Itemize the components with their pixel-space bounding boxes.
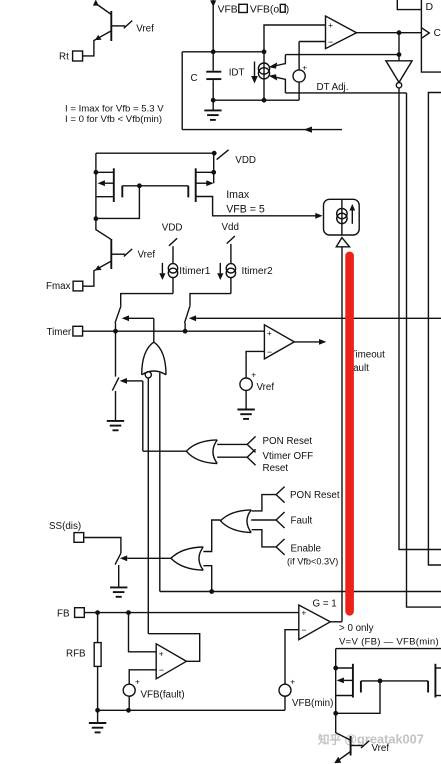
wire U1 - input [299,41,325,43]
svg-text:+: + [135,677,140,687]
wire gate rail bottom [380,680,428,682]
wire U7 - input [246,351,264,378]
wire U1 output to flipflop [357,32,422,34]
amp U6 G=1 [299,605,331,640]
wire U1 + input [264,25,326,52]
arrow A2 switch2 control [189,315,196,321]
switch SW4 [115,553,121,564]
wire bottom rail to DT source [213,99,299,101]
svg-text:+: + [328,20,333,30]
wire output junction down [398,33,400,55]
svg-text:Vref: Vref [138,249,156,260]
svg-text:Imax: Imax [226,189,250,201]
node bottom mirror gate junction [378,679,383,684]
wire mirror upper arrow [277,55,286,66]
svg-text:Fault: Fault [291,515,313,526]
svg-text:FB: FB [57,608,70,619]
svg-text:IDT: IDT [229,67,245,78]
wire M2 drain to VCO with right arrow [196,197,316,216]
wire VCO output column (under red) [341,247,343,622]
node timer junction 2 [183,329,188,334]
wire inverter output down right column [399,88,441,550]
op-amp U5 VFB fault comparator [156,644,186,679]
wire G1 bubble input column [147,378,149,634]
svg-text:C: C [434,28,441,39]
transistor M1 (left PMOS) [96,168,139,202]
wire U6 - input [285,630,299,685]
current source I2 Itimer2 [217,222,273,294]
node M1 drain tee [94,216,99,221]
node mirror gate junction [137,183,142,188]
ground under SW4 [110,587,127,596]
svg-text:+: + [251,370,256,380]
transistor M3 (left PMOS bottom) [336,664,380,698]
wire Timer line [83,330,265,332]
gate G2 OR (PON/Vtimer reset) [143,436,256,465]
comparator U7 timeout [264,325,294,359]
node hysteresis junction [397,52,402,57]
node FB-RFB junction [95,610,100,615]
svg-text:VFB: VFB [218,5,238,16]
node M3 source tee [333,666,338,671]
transistor Q1 base bar [110,11,112,41]
current source V1 DT adj [298,42,300,71]
clock chevron [421,28,429,39]
wire U5 - input [129,670,156,684]
VCO input triangle [336,238,349,247]
wire Q1 collector to top edge with up arrow [96,4,112,15]
node M1 source tee [94,170,99,175]
wire Q1 base lead [111,25,125,27]
VCO mirror circles [337,208,347,218]
wire VCO feedback line with left arrow [182,129,342,131]
wire VDD rail bottom mirror [336,648,441,650]
svg-text:+: + [301,607,306,617]
transistor Q3 (Vref bottom) [334,713,369,763]
svg-text:G = 1: G = 1 [313,599,337,610]
switch SW3 discharge [115,331,117,376]
svg-text:Vref: Vref [136,23,154,34]
pin FB [75,608,85,618]
svg-text:Itimer2: Itimer2 [242,266,273,277]
wire mirror left vertical [95,153,97,219]
wire SS to switch [84,538,121,554]
wire G1 right input column [159,373,161,592]
pin Timer [73,326,83,336]
svg-text:Enable: Enable [291,544,322,555]
svg-text:+: + [302,62,307,72]
arrow A3 switch3 control [120,378,127,384]
wire Itimer1 to switch [121,294,173,306]
wire through IDT mirror [263,52,265,100]
node mirror bottom [262,98,267,103]
wire Q1 emitter with arrow [83,31,111,56]
ground under SW3 [107,421,124,430]
capacitor C [212,52,214,71]
current source I1 Itimer1 [159,223,210,294]
wire FB to U5 + input [129,613,157,652]
wire fault rail [160,591,441,593]
source V3 VFB(min) [279,684,291,696]
wire U7 output arrow [294,341,319,343]
svg-text:Itimer1: Itimer1 [179,266,210,277]
svg-text:C: C [191,73,198,84]
wire FB line [84,612,298,614]
wire mirror lower arrow [277,77,286,93]
svg-text:Timer: Timer [47,327,72,338]
wire right edge branch [428,93,441,566]
gate G4 OR (SS control) [171,547,212,592]
svg-text:+: + [290,677,295,687]
wire DT adj down right column [407,93,441,607]
oscillator U4 VCO box [324,199,360,235]
inverter U2 [398,55,400,61]
svg-text:Reset: Reset [263,463,289,474]
svg-text:VDD: VDD [235,155,256,166]
source V2 VFB(fault) [123,684,135,696]
svg-text:−: − [328,37,333,47]
ground under V4 [237,410,254,419]
svg-text:−: − [301,625,306,635]
svg-text:VFB = 5: VFB = 5 [226,203,265,215]
current mirror IDT circles [258,63,269,74]
wire node rail to mirror [182,51,264,53]
svg-text:): ) [286,5,289,16]
transistor M2 (right PMOS Imax) [188,153,213,202]
label VFB >= VFB(ov) header [218,4,290,15]
svg-text:VDD: VDD [162,223,183,234]
G1 input bubble [145,372,151,378]
node mirror top [262,49,267,54]
wire D input [397,0,421,10]
node VDD rail end [212,151,217,156]
svg-text:+: + [267,328,272,338]
gate G1 NOR (up pointing) [142,342,166,375]
annotation red highlight line [345,256,354,612]
svg-text:VFB(o: VFB(o [250,5,279,16]
node fault rail junction [209,589,214,594]
node cap-top junction [211,49,216,54]
svg-text:I = Imax for Vfb = 5.3 V: I = Imax for Vfb = 5.3 V [65,103,164,114]
svg-text:VFB(min): VFB(min) [292,698,333,709]
wire U6 output [330,621,342,623]
svg-text:Fmax: Fmax [46,281,71,292]
transistor Q2 (Fmax) [83,219,132,287]
ground under C [204,100,221,120]
node cap-bottom junction [211,98,216,103]
svg-text:D: D [426,1,434,13]
svg-text:Vdd: Vdd [222,222,239,233]
wire VCO internal [341,199,343,235]
ground bottom left [89,710,106,732]
arrow A4 switch4 control from G4 [120,555,127,561]
VCO up arrow [351,210,353,224]
svg-text:+: + [159,649,164,659]
source V4 Vref [240,378,252,390]
comparator U1 (VFB ov) [326,16,357,49]
svg-text:PON Reset: PON Reset [290,490,340,501]
power VDD slash [217,150,229,160]
node U1 output junction [397,30,402,35]
wire mirror left vertical [335,649,337,714]
node timer junction 1 [113,329,118,334]
wire VFB input from top with down arrow [212,0,214,52]
node rail-RFB [95,708,100,713]
svg-text:Timeout: Timeout [350,349,385,360]
wire Itimer2 to switch [190,294,231,306]
wire SW3 control riser [142,381,144,451]
gate G1 NOR output riser [153,318,155,342]
switch SW1 [115,306,121,323]
transistor M4 (right PMOS bottom, cut) [428,664,441,698]
gate G3 OR (fault collect) [203,487,284,555]
wire gate rail [139,185,188,187]
svg-text:Vref: Vref [257,382,275,393]
flipflop U3 box [421,0,441,72]
svg-text:> 0 only: > 0 only [339,623,374,634]
svg-text:−: − [159,665,164,675]
wire left branch down [181,52,183,130]
svg-text:Vtimer OFF: Vtimer OFF [263,451,314,462]
resistor RFB [97,613,99,643]
node M2 source tee [211,170,216,175]
svg-text:DT Adj.: DT Adj. [317,82,349,93]
transistor Q1 (Rt emitter follower) [83,0,154,56]
pin Rt [73,51,83,61]
wire hysteresis line [285,54,399,56]
svg-text:Rt: Rt [59,52,69,63]
svg-text:SS(dis): SS(dis) [49,521,81,532]
pin Fmax [73,281,83,291]
svg-text:I = 0 for Vfb < Vfb(min): I = 0 for Vfb < Vfb(min) [65,114,162,125]
wire diode tie [96,186,139,219]
wire DT adj line [285,92,406,94]
svg-text:−: − [267,347,272,357]
svg-text:(if Vfb<0.3V): (if Vfb<0.3V) [287,556,338,566]
wire U5 output feedback loop [148,634,199,662]
wire analog ground rail [98,709,285,711]
arrow IDT down [254,62,256,77]
node M3 drain [333,711,338,716]
node FB-comp junction [126,610,131,615]
switch SW2 [185,306,191,323]
wire diode tie bottom [336,681,380,713]
svg-text:VFB(fault): VFB(fault) [141,690,185,701]
svg-text:RFB: RFB [66,649,86,660]
svg-text:知乎 @greatak007: 知乎 @greatak007 [317,732,424,747]
Vref slash on Q1 base [124,21,132,29]
node rail-V2 [126,708,131,713]
svg-text:Vref: Vref [372,743,390,754]
svg-text:V=V (FB) — VFB(min): V=V (FB) — VFB(min) [339,636,439,647]
svg-text:PON Reset: PON Reset [263,436,313,447]
arrow A1 switch1 control [122,315,129,321]
wire VDD rail top mirror [96,152,214,154]
